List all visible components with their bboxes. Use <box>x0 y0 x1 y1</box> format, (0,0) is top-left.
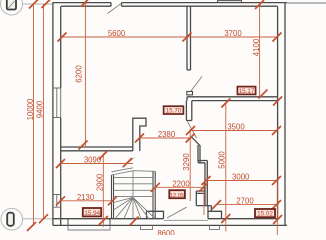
bottom door threshold line <box>164 219 208 221</box>
dim 3500 line <box>191 130 277 132</box>
grid bubble top-left <box>1 0 53 15</box>
svg-text:4100: 4100 <box>252 38 261 56</box>
extension line 2700 left <box>203 183 205 215</box>
ticks 3500 <box>186 126 281 135</box>
left wall window1 <box>53 88 61 118</box>
svg-text:2200: 2200 <box>172 179 190 188</box>
outside step below wall <box>68 225 110 230</box>
bottom door leaf <box>167 207 187 218</box>
label box 12.05 <box>169 190 185 199</box>
bottom opening left pier <box>147 211 164 218</box>
top wall window notch <box>218 1 242 3</box>
right wall <box>278 3 285 226</box>
left wall outer line <box>52 3 54 226</box>
grid bubble bottom-left <box>1 208 53 230</box>
label box 15.94 <box>83 208 101 217</box>
misc thin diagonal near stair top <box>122 158 135 168</box>
dim 10000 vertical <box>33 4 35 226</box>
svg-text:2700: 2700 <box>236 197 254 206</box>
bottom entry door jambs <box>68 219 110 226</box>
interior wall left room bottom <box>61 147 133 151</box>
left wall window2 jambs <box>53 195 61 208</box>
svg-text:5600: 5600 <box>108 29 126 38</box>
ticks 5600/3700 <box>58 33 282 42</box>
dim 2380 line <box>140 137 191 139</box>
top dim line 5600/3700 <box>60 36 277 38</box>
top wall extension to right edge <box>287 2 326 4</box>
dim 3290 vertical <box>189 129 191 201</box>
dim 9400 vertical <box>43 4 45 219</box>
dim 6200 vertical <box>84 37 86 146</box>
door jamb block <box>187 92 193 95</box>
ticks 2700 <box>212 200 281 209</box>
bottom wall inner line <box>53 218 278 220</box>
interior wall W1 vertical upper <box>187 6 191 70</box>
tick 5000 top <box>221 99 230 108</box>
stair left edge <box>112 175 114 219</box>
svg-text:15.94: 15.94 <box>84 210 100 217</box>
stair center line <box>132 171 134 198</box>
svg-text:12.05: 12.05 <box>170 193 185 199</box>
svg-text:5000: 5000 <box>218 151 227 169</box>
svg-text:3090: 3090 <box>84 156 102 165</box>
label box 15.17 <box>237 87 255 96</box>
wall stub T <box>196 191 205 206</box>
svg-text:3290: 3290 <box>182 153 191 171</box>
stepped wall hall/right room lower <box>192 137 208 205</box>
tick wall right y101 <box>273 97 282 106</box>
ticks 3090 <box>56 151 132 169</box>
svg-text:2380: 2380 <box>158 130 176 139</box>
step under left pier <box>141 225 153 229</box>
top wall door leaf <box>108 3 122 13</box>
dim 3000 line <box>206 180 277 182</box>
dim 4100 vertical <box>259 4 261 96</box>
dim 2900 vertical <box>102 154 104 228</box>
svg-text:6200: 6200 <box>75 65 84 83</box>
pier cap above bottom-right door <box>196 206 211 212</box>
ticks top chain <box>29 0 264 9</box>
bottom wall outer line <box>53 224 287 226</box>
door leaf upper <box>191 77 203 92</box>
svg-text:15.70: 15.70 <box>166 108 182 115</box>
svg-text:8600: 8600 <box>157 229 175 235</box>
bottom opening right pier <box>208 206 222 219</box>
extension line right 279 <box>276 181 278 236</box>
svg-text:15.17: 15.17 <box>239 88 255 95</box>
top wall door jambs <box>111 3 122 7</box>
interior wall W3 vertical (hall/right room) <box>186 101 191 121</box>
left wall inner line <box>60 6 62 225</box>
svg-text:2130: 2130 <box>77 193 95 202</box>
ticks 2380 <box>135 134 195 143</box>
step under right pier <box>210 225 220 229</box>
ticks 2130 <box>56 196 117 205</box>
top wall outer line <box>53 2 288 4</box>
svg-text:3000: 3000 <box>232 173 250 182</box>
svg-text:15.02: 15.02 <box>257 211 273 218</box>
ticks bottom chain <box>27 214 282 231</box>
dim 2200 line <box>155 186 203 188</box>
ticks 2200 <box>151 183 208 192</box>
svg-text:10000: 10000 <box>26 98 35 120</box>
extension verticals top <box>84 2 86 37</box>
tick 4100 bottom <box>259 90 268 99</box>
svg-text:3700: 3700 <box>224 29 242 38</box>
svg-text:3500: 3500 <box>227 123 245 132</box>
top wall inner line <box>61 5 278 7</box>
winder rays <box>114 197 156 218</box>
treads <box>114 177 154 196</box>
dim 2130 line <box>61 200 113 202</box>
interior wall W2 horizontal <box>187 97 278 101</box>
dim 5000 vertical <box>225 103 227 232</box>
dim 3090 line <box>61 163 134 165</box>
pilaster with hook (hall left) <box>133 118 146 151</box>
dim 2700 line <box>217 204 277 206</box>
svg-text:9400: 9400 <box>36 100 45 118</box>
door leaf hall <box>188 122 197 139</box>
label box 15.02 <box>255 209 275 218</box>
tick 6200 bottom <box>79 141 88 150</box>
stair top break line <box>112 168 156 175</box>
label box 15.70 <box>164 106 184 115</box>
svg-text:2900: 2900 <box>95 173 104 191</box>
stair right edge <box>153 171 155 218</box>
ticks 3000 <box>202 176 282 185</box>
